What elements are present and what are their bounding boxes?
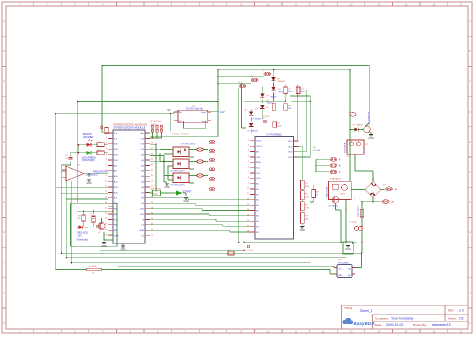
junction node J36 at 361.5,253.2 <box>361 252 363 254</box>
wire bottom bus y253 <box>61 252 362 254</box>
svg-text:Vout-: Vout- <box>201 120 206 123</box>
optocoupler U4 <box>170 159 189 172</box>
optocoupler U5 <box>170 173 189 186</box>
svg-text:A: A <box>3 19 5 23</box>
junction node J13 at 170.4,113.6 <box>170 113 172 115</box>
optocoupler U3 <box>173 144 196 157</box>
transistor Q-relay <box>329 196 339 207</box>
svg-text:AC: AC <box>392 201 395 204</box>
svg-text:VDD: VDD <box>288 141 293 143</box>
wire opto gnd <box>164 180 167 182</box>
junction node J26 at 160,154 <box>159 153 161 155</box>
connector AC1 <box>386 187 399 191</box>
svg-text:8: 8 <box>248 177 249 179</box>
svg-text:NC: NC <box>256 226 260 228</box>
rtc connector J2 <box>251 76 259 82</box>
svg-text:23: 23 <box>151 224 153 226</box>
svg-text:1N4007: 1N4007 <box>356 125 364 127</box>
junction node J7 at 77.7,101.5 <box>77 101 79 103</box>
svg-text:38: 38 <box>151 143 153 145</box>
svg-text:15: 15 <box>105 207 107 209</box>
resistor R-rtc2 <box>272 104 276 111</box>
svg-text:17: 17 <box>247 225 249 227</box>
junction node J8 at 55.6,113.6 <box>55 113 57 115</box>
svg-text:OSCO: OSCO <box>256 146 263 148</box>
junction node J39 at 238.9,242.4 <box>238 242 240 244</box>
resistor R-pcf-extra <box>312 190 320 198</box>
wire error led net <box>78 145 108 153</box>
op-amp U-lm358 <box>62 164 99 181</box>
svg-text:E: E <box>469 140 471 144</box>
svg-text:24: 24 <box>151 218 153 220</box>
svg-text:34: 34 <box>151 164 153 166</box>
svg-text:B: B <box>469 49 471 53</box>
junction node J31 at 89,173.6 <box>88 173 90 175</box>
wire green led net <box>78 152 108 154</box>
rtc connector J1 <box>263 70 271 76</box>
svg-text:D: D <box>469 110 471 114</box>
wire relay bottom <box>336 200 353 245</box>
diode D2 <box>270 87 278 99</box>
svg-text:REV:: REV: <box>448 309 455 313</box>
svg-text:C? 0.1u: C? 0.1u <box>181 133 189 135</box>
svg-text:4x1 Pin: 4x1 Pin <box>151 124 159 126</box>
svg-text:U? PCF8563: U? PCF8563 <box>267 132 283 136</box>
wire bottom bus y250 <box>100 249 245 251</box>
svg-text:C? 0.1u: C? 0.1u <box>172 133 180 135</box>
svg-text:100k: 100k <box>279 92 283 94</box>
ground under opamp <box>87 179 91 181</box>
wire bridge to AC connectors <box>351 190 384 254</box>
svg-text:ianmaster19: ianmaster19 <box>432 323 451 327</box>
svg-text:B: B <box>3 49 5 53</box>
junction node J11 at 71.4,262.8 <box>71 262 73 264</box>
svg-text:G: G <box>469 200 471 204</box>
svg-text:1: 1 <box>248 140 249 142</box>
svg-text:C: C <box>339 171 341 174</box>
svg-text:START: START <box>183 189 192 193</box>
load L2 <box>209 149 211 151</box>
svg-text:37: 37 <box>151 148 153 150</box>
connector J-buz <box>348 112 356 116</box>
junction node J25 at 156,149.9 <box>155 149 157 151</box>
svg-text:27: 27 <box>151 202 153 204</box>
wire overload internal <box>77 206 113 240</box>
wire relay abc connector feeds <box>316 159 330 172</box>
svg-text:21: 21 <box>151 234 153 236</box>
svg-text:Omron: Omron <box>340 194 346 196</box>
svg-text:EasyEDA: EasyEDA <box>354 321 376 327</box>
svg-text:GND: GND <box>86 182 92 185</box>
load L6 <box>209 187 211 189</box>
wire mcu left lower nets <box>56 188 108 199</box>
wire DC-DC output loop <box>184 112 220 128</box>
svg-text:C: C <box>3 79 5 83</box>
wire relaypcb to bridge <box>355 154 373 181</box>
svg-text:HLK-5M05: HLK-5M05 <box>338 262 349 264</box>
svg-text:CLK: CLK <box>256 173 261 175</box>
svg-text:18: 18 <box>105 224 107 226</box>
svg-text:2: 2 <box>106 137 107 139</box>
wire bottom bus y264 <box>118 266 337 267</box>
svg-text:C? 22u: C? 22u <box>263 116 269 118</box>
diode D4 <box>260 105 270 109</box>
svg-text:Sheet_1: Sheet_1 <box>360 309 373 313</box>
svg-text:17: 17 <box>105 218 107 220</box>
svg-text:Q? S8050: Q? S8050 <box>329 206 339 208</box>
wire opamp nets <box>61 153 108 177</box>
connector J-opto3 <box>197 174 204 178</box>
svg-text:D: D <box>3 110 5 114</box>
svg-text:1.0: 1.0 <box>459 309 464 313</box>
svg-text:C? 104J: C? 104J <box>349 222 356 224</box>
svg-text:32: 32 <box>151 175 153 177</box>
ground overload <box>102 243 106 245</box>
wire mcu gnd stub <box>122 243 124 245</box>
svg-text:9: 9 <box>106 175 107 177</box>
svg-text:1N4007: 1N4007 <box>270 97 278 99</box>
junction node J2 at 218,76.8 <box>217 76 219 78</box>
junction node J18 at 362,201.6 <box>361 201 363 203</box>
svg-text:TITLE:: TITLE: <box>344 306 353 310</box>
wire opto feed verticals <box>150 144 168 191</box>
resistor R-reset near pin1 <box>100 126 108 134</box>
svg-text:10u: 10u <box>288 91 291 93</box>
resistor R-greenled <box>97 150 104 155</box>
svg-text:G: G <box>3 200 5 204</box>
diode D-buzzer <box>353 125 364 132</box>
svg-text:11: 11 <box>247 193 249 195</box>
svg-text:10: 10 <box>105 180 107 182</box>
diode D3 <box>260 94 270 98</box>
junction node J37 at 362,226 <box>361 225 363 227</box>
svg-text:6: 6 <box>248 166 249 168</box>
svg-text:SDA: SDA <box>256 161 261 164</box>
svg-text:NC: NC <box>256 232 260 234</box>
svg-text:25: 25 <box>151 213 153 215</box>
svg-text:2020-10-02: 2020-10-02 <box>386 323 403 327</box>
svg-text:11: 11 <box>105 186 107 188</box>
svg-text:3: 3 <box>248 150 249 152</box>
junction node J38 at 346,210 <box>345 209 347 211</box>
wire long horizontal net y101 <box>78 102 218 204</box>
junction node J6 at 102,65.5 <box>101 65 103 67</box>
junction node J14 at 285.4,101.1 <box>285 100 287 102</box>
junction node J15 at 362,242.4 <box>361 242 363 244</box>
junction node J19 at 373,201.6 <box>372 201 374 203</box>
svg-text:5: 5 <box>106 153 107 155</box>
title block texts <box>344 306 457 327</box>
svg-text:14: 14 <box>105 202 107 204</box>
svg-text:26: 26 <box>151 207 153 209</box>
wire 3V3 bus vertical node <box>150 70 218 137</box>
svg-text:GND: GND <box>120 249 126 252</box>
wire RTC nested loop a <box>238 89 240 243</box>
svg-text:GND: GND <box>338 275 343 277</box>
wire opto outputs <box>189 150 208 184</box>
svg-text:GND: GND <box>183 200 189 203</box>
svg-text:VDD: VDD <box>288 152 293 154</box>
wire top net to buzzer <box>102 66 369 133</box>
svg-text:13: 13 <box>247 204 249 206</box>
svg-text:2: 2 <box>248 145 249 147</box>
svg-text:VDD: VDD <box>256 178 261 180</box>
svg-text:K: K <box>3 321 5 325</box>
junction node J21 at 350,129.5 <box>349 129 351 131</box>
wire pcf extra stub <box>310 185 314 202</box>
junction node J24 at 244,242.4 <box>243 242 245 244</box>
svg-text:1: 1 <box>354 198 355 200</box>
svg-text:C? 0.1u: C? 0.1u <box>246 250 253 252</box>
ground buzzer <box>369 135 373 137</box>
ground relay area <box>343 242 353 254</box>
rtc ic U6 PCF8563 <box>247 132 299 239</box>
wire diode chain links <box>251 82 273 133</box>
mcu module U1 STM32F103C8T6 <box>105 122 153 243</box>
junction node J3 at 218,83.9 <box>217 83 219 85</box>
capacitor C-rtc1 <box>296 87 304 94</box>
svg-text:10k: 10k <box>305 219 308 221</box>
junction node J9 at 61.4,253.2 <box>61 252 63 254</box>
ground pullups <box>300 227 304 229</box>
svg-text:GND: GND <box>368 137 374 140</box>
svg-text:1k: 1k <box>316 195 318 197</box>
svg-text:12: 12 <box>105 191 107 193</box>
svg-text:Overload: Overload <box>77 238 89 242</box>
junction node J32 at 113,211.1 <box>112 210 114 212</box>
svg-text:U? OPIC-817C: U? OPIC-817C <box>170 184 185 186</box>
resistor R-errorled <box>97 142 104 147</box>
resistor R-bus2 <box>228 250 234 255</box>
wire branch to connector J2 and diode chain <box>218 76 263 78</box>
svg-text:Bat: Bat <box>141 132 145 135</box>
resistor R-rtc1 <box>284 87 292 94</box>
svg-text:33: 33 <box>151 170 153 172</box>
svg-text:GND: GND <box>345 248 351 251</box>
svg-text:15: 15 <box>247 215 249 217</box>
svg-text:36: 36 <box>151 153 153 155</box>
svg-text:U? RELAY-5V: U? RELAY-5V <box>329 178 342 181</box>
svg-text:GND: GND <box>114 236 119 238</box>
junction node J30 at 78.3,152.8 <box>78 152 80 154</box>
svg-text:IN-: IN- <box>179 121 182 123</box>
wire header to mcu <box>150 133 162 139</box>
resistor R-bus <box>87 266 102 274</box>
resistor R-rtc4 <box>273 122 281 128</box>
svg-text:D? 1N5819: D? 1N5819 <box>248 131 259 133</box>
wire opto input stubs <box>160 150 173 181</box>
wire branch to connector J1 and relay supply <box>218 70 350 181</box>
junction node J10 at 66.4,257.6 <box>66 257 68 259</box>
relay module K1 <box>327 181 352 199</box>
capacitor C row under dcdc <box>172 133 189 135</box>
svg-text:1/1: 1/1 <box>459 317 464 321</box>
wire mid bus y242 <box>244 241 356 243</box>
green led D-green <box>82 151 96 162</box>
svg-text:NC: NC <box>256 205 260 207</box>
svg-text:28: 28 <box>151 197 153 199</box>
svg-text:35: 35 <box>151 159 153 161</box>
transistor Q-ol <box>96 222 105 233</box>
svg-text:U? OPIC-817C: U? OPIC-817C <box>170 170 185 172</box>
junction node J41 at 156,144.3 <box>155 144 157 146</box>
connector C <box>330 170 341 174</box>
junction node J17 at 341,242.4 <box>340 242 342 244</box>
svg-text:4.7k: 4.7k <box>305 186 309 188</box>
svg-text:NTC 10D-9: NTC 10D-9 <box>358 205 360 216</box>
diode D6 <box>248 123 259 133</box>
wire pullup chain <box>301 189 303 226</box>
resistor R-ol <box>77 215 85 221</box>
svg-text:4: 4 <box>106 148 107 150</box>
svg-text:10: 10 <box>247 188 249 190</box>
diode bridge DB1 <box>365 179 381 198</box>
svg-text:SRD-05VDC: SRD-05VDC <box>327 186 329 198</box>
svg-text:STM32F103C8T6 MODULE: STM32F103C8T6 MODULE <box>113 126 146 130</box>
wire bottom bus y269 with resistor gap <box>56 270 337 275</box>
svg-text:7: 7 <box>106 164 107 166</box>
svg-text:DC-DC Step Up: DC-DC Step Up <box>186 107 204 110</box>
junction node J20 at 350,69.6 <box>349 69 351 71</box>
capacitor C-rtc2 <box>262 118 267 123</box>
svg-text:NC: NC <box>256 189 260 191</box>
svg-text:20: 20 <box>105 234 107 236</box>
junction node J23 at 310.4,101.1 <box>310 100 312 102</box>
svg-text:NC: NC <box>256 184 260 186</box>
wire HLK output right <box>352 253 362 267</box>
svg-text:A: A <box>469 19 471 23</box>
capacitor C-opamp <box>65 155 73 160</box>
junction node J27 at 164,161.2 <box>163 160 165 162</box>
svg-text:U? OPIC-817C: U? OPIC-817C <box>181 144 196 146</box>
svg-text:1N4007: 1N4007 <box>267 103 275 105</box>
svg-text:NC: NC <box>256 221 260 223</box>
wire RTC nested loop c <box>244 100 311 102</box>
svg-text:4.7-10k: 4.7-10k <box>313 150 321 152</box>
svg-text:H: H <box>469 230 471 234</box>
wire PCF supply verticals <box>285 84 297 141</box>
overload led D-ol <box>77 225 89 241</box>
ground start <box>184 197 188 199</box>
header H1 4x1 pin <box>151 121 163 132</box>
svg-text:OSCI: OSCI <box>256 141 262 143</box>
junction node J12 at 56,269.5 <box>55 269 57 271</box>
svg-text:RelayPCB: RelayPCB <box>345 142 347 153</box>
svg-text:NC: NC <box>256 200 260 202</box>
svg-text:3: 3 <box>106 143 107 145</box>
svg-text:NC: NC <box>256 216 260 218</box>
svg-text:9: 9 <box>248 182 249 184</box>
junction node J42 at 152.5,138 <box>152 137 154 139</box>
svg-text:R? 100k: R? 100k <box>89 266 96 268</box>
capacitor C-ol <box>90 214 96 219</box>
svg-text:7: 7 <box>248 172 249 174</box>
buzzer B1 <box>364 111 371 132</box>
connector AC2 <box>382 200 395 204</box>
title block <box>342 305 469 329</box>
svg-text:10k: 10k <box>288 108 291 110</box>
svg-text:1N4148: 1N4148 <box>278 81 286 83</box>
svg-text:GND: GND <box>101 245 107 248</box>
load L4 <box>209 168 211 170</box>
svg-text:10u: 10u <box>301 91 304 93</box>
load L1 <box>209 140 211 142</box>
wire bottom bus y261 <box>71 262 310 264</box>
svg-text:5V: 5V <box>167 108 170 112</box>
svg-text:NC: NC <box>256 194 260 196</box>
wire bottom bus y257 <box>66 257 346 259</box>
svg-text:GND: GND <box>164 186 170 189</box>
svg-text:14: 14 <box>247 209 249 211</box>
svg-text:6: 6 <box>106 159 107 161</box>
load L5 <box>209 177 211 179</box>
svg-text:10k: 10k <box>77 218 80 220</box>
junction node J43 at 157,138 <box>156 137 158 139</box>
svg-text:GND: GND <box>139 230 144 232</box>
svg-text:(CNF/SOM): (CNF/SOM) <box>82 159 95 162</box>
svg-text:VDD: VDD <box>288 157 293 159</box>
wire RTC nested loop b <box>242 83 247 128</box>
resistor R-rtc3 <box>284 104 292 111</box>
connector J-opto1 <box>197 148 204 152</box>
svg-text:H: H <box>3 230 5 234</box>
svg-text:FREQ-DETEC: FREQ-DETEC <box>93 171 109 174</box>
wire branch to connector J3 <box>218 83 251 85</box>
svg-text:Sheet:: Sheet: <box>448 317 457 321</box>
svg-text:BUZZER 5V: BUZZER 5V <box>369 111 371 124</box>
svg-text:12V: 12V <box>220 110 225 114</box>
svg-text:Drawn By:: Drawn By: <box>413 323 427 327</box>
overload section box <box>71 203 118 246</box>
connector J-opto2 <box>197 160 204 164</box>
mcu ground <box>121 246 125 248</box>
junction node J33 at 104,240 <box>103 239 105 241</box>
svg-text:NC: NC <box>256 210 260 212</box>
junction node J28 at 168,166 <box>167 165 169 167</box>
wire cascade mcu to rtc <box>150 198 250 232</box>
pin pad node reset <box>101 127 103 129</box>
load L3 <box>209 158 211 160</box>
svg-text:2.2k: 2.2k <box>278 126 282 128</box>
resistor chain R-pullup1 <box>301 180 309 189</box>
svg-text:TMR: TMR <box>153 193 158 195</box>
dc-dc step up module U2 <box>174 106 211 123</box>
svg-text:13: 13 <box>105 197 107 199</box>
hlk power module U8 <box>334 259 355 277</box>
rtc connector J3 <box>238 82 246 88</box>
junction node J4 at 218,101.5 <box>217 101 219 103</box>
junction node J16 at 346,242.4 <box>345 242 347 244</box>
wire left vertical buses <box>61 165 71 263</box>
wire 5V input net <box>56 112 179 270</box>
svg-text:4.7k: 4.7k <box>305 197 309 199</box>
svg-text:LM358/SO?: LM358/SO? <box>86 174 99 177</box>
junction node J22 at 297.7,96 <box>297 95 299 97</box>
wire buzzer feed <box>350 124 371 134</box>
svg-text:12: 12 <box>247 198 249 200</box>
svg-text:16: 16 <box>247 220 249 222</box>
svg-text:GND: GND <box>300 229 306 232</box>
svg-text:4: 4 <box>248 156 249 158</box>
svg-text:16: 16 <box>105 213 107 215</box>
svg-text:Vout+: Vout+ <box>201 111 207 114</box>
svg-text:19: 19 <box>105 229 107 231</box>
junction node J40 at 244,250.4 <box>243 250 245 252</box>
junction node J5 at 273.8,69.6 <box>273 69 275 71</box>
wire start button net <box>150 193 186 196</box>
start button <box>176 189 192 195</box>
svg-text:22: 22 <box>151 229 153 231</box>
